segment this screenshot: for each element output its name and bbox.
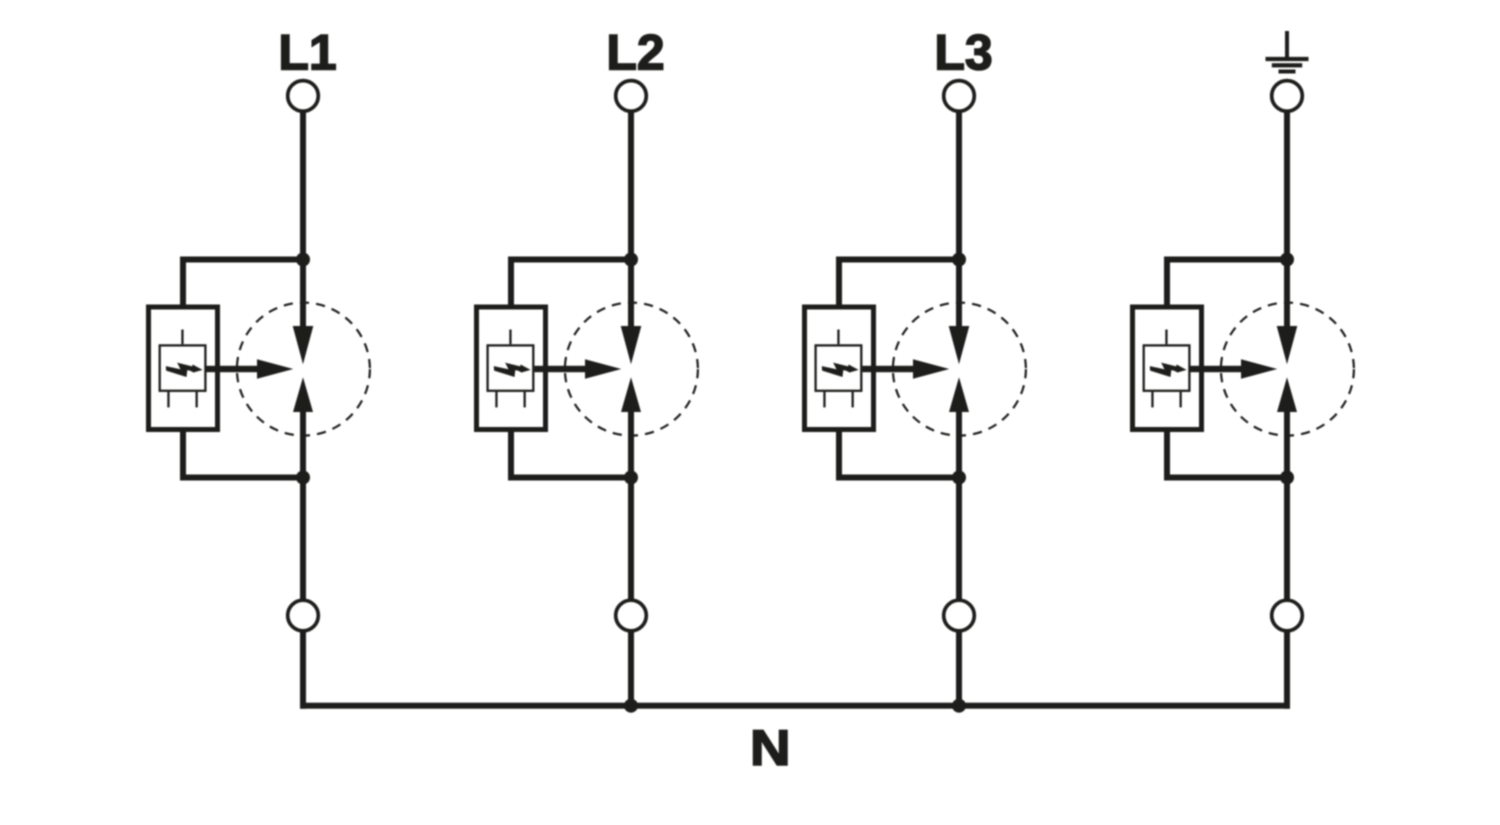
terminal L1 bottom [288,600,319,631]
trigger arrow shaft [1191,366,1243,372]
trigger arrow head [1241,359,1277,379]
trigger arrow shaft [207,366,259,372]
wire branch left vertical (to disconnect box) [180,257,186,309]
inner box bottom pin 2 [852,392,854,407]
junction lower L3 [952,471,966,485]
channel L2 [477,24,698,708]
junction upper PE [1280,253,1294,267]
terminal L3 top [944,81,975,112]
wire L3 bottom vertical [956,631,962,709]
trigger arrow shaft [863,366,915,372]
inner box bottom pin 1 [495,392,497,407]
wire branch top horizontal [180,257,303,263]
junction N rail at L2 [624,699,638,713]
wire L1 top vertical [300,111,306,330]
svg-text:L2: L2 [606,24,664,80]
wire L3 top vertical [956,111,962,330]
junction lower PE [1280,471,1294,485]
spark gap electrode top (arrow down) [1277,326,1298,364]
wire branch top horizontal [836,257,959,263]
lightning flash symbol [822,363,859,377]
wire branch left vertical (from box bottom) [508,430,514,481]
inner box top pin [837,330,839,345]
trigger arrow head [913,359,949,379]
trigger arrow head [257,359,293,379]
junction upper L2 [624,253,638,267]
wire PE middle vertical [1284,410,1290,601]
wire branch left vertical (to disconnect box) [1164,257,1170,309]
svg-text:N: N [750,721,791,776]
spark gap electrode top (arrow down) [949,326,970,364]
wire branch bottom horizontal [180,475,303,481]
inner box bottom pin 2 [524,392,526,407]
wire PE top vertical [1284,111,1290,330]
monitoring element inner box [1144,345,1190,390]
wire branch left vertical (to disconnect box) [836,257,842,309]
inner box top pin [1165,330,1167,345]
spark gap electrode top (arrow down) [293,326,314,364]
junction upper L1 [296,253,310,267]
spark gap electrode top (arrow down) [621,326,642,364]
wire L1 bottom vertical [300,631,306,709]
inner box top pin [509,330,511,345]
terminal PE bottom [1272,600,1303,631]
channel L1 [149,24,370,708]
wire L3 middle vertical [956,410,962,601]
lightning flash symbol [166,363,203,377]
terminal L2 bottom [616,600,647,631]
inner box bottom pin 1 [823,392,825,407]
spark gap electrode bottom (arrow up) [1277,377,1297,412]
svg-text:L3: L3 [934,24,992,80]
inner box top pin [181,330,183,345]
terminal L3 bottom [944,600,975,631]
inner box bottom pin 2 [196,392,198,407]
lightning flash symbol [494,363,531,377]
disconnect device box L2 [477,307,546,430]
earth ground symbol [1266,31,1309,74]
terminal L2 top [616,81,647,112]
junction lower L1 [296,471,310,485]
N rail wire [300,703,1290,709]
inner box bottom pin 1 [1151,392,1153,407]
wire branch left vertical (from box bottom) [180,430,186,481]
inner box bottom pin 2 [1180,392,1182,407]
channel PE [1133,31,1354,709]
spark gap enclosure (dashed circle) [893,303,1026,436]
wire PE bottom vertical [1284,631,1290,709]
monitoring element inner box [160,345,206,390]
disconnect device box L3 [805,307,874,430]
wire branch left vertical (to disconnect box) [508,257,514,309]
terminal L1 top [288,81,319,112]
wire branch top horizontal [508,257,631,263]
disconnect device box PE [1133,307,1202,430]
trigger arrow shaft [535,366,587,372]
wire L1 middle vertical [300,410,306,601]
wire branch bottom horizontal [508,475,631,481]
wire branch left vertical (from box bottom) [836,430,842,481]
spark gap electrode bottom (arrow up) [293,377,313,412]
lightning flash symbol [1150,363,1187,377]
inner box bottom pin 1 [167,392,169,407]
wire branch left vertical (from box bottom) [1164,430,1170,481]
disconnect device box L1 [149,307,218,430]
spark gap enclosure (dashed circle) [565,303,698,436]
wire branch top horizontal [1164,257,1287,263]
wire L2 bottom vertical [628,631,634,709]
wire L2 middle vertical [628,410,634,601]
spark gap electrode bottom (arrow up) [621,377,641,412]
junction lower L2 [624,471,638,485]
monitoring element inner box [816,345,862,390]
wire branch bottom horizontal [836,475,959,481]
spark gap electrode bottom (arrow up) [949,377,969,412]
channel L3 [805,24,1026,708]
terminal PE top [1272,81,1303,112]
wire branch bottom horizontal [1164,475,1287,481]
junction upper L3 [952,253,966,267]
trigger arrow head [585,359,621,379]
wire L2 top vertical [628,111,634,330]
spark gap enclosure (dashed circle) [237,303,370,436]
junction N rail at L3 [952,699,966,713]
monitoring element inner box [488,345,534,390]
svg-text:L1: L1 [278,24,336,80]
spark gap enclosure (dashed circle) [1221,303,1354,436]
